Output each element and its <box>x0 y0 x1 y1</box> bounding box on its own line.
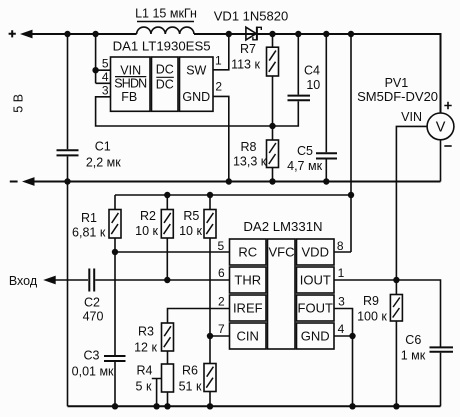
svg-text:SHDN: SHDN <box>114 77 147 91</box>
wire VDD riser rail to pin8 <box>334 34 351 252</box>
svg-text:5 к: 5 к <box>136 380 152 394</box>
svg-text:7: 7 <box>218 322 225 336</box>
svg-text:C1: C1 <box>95 140 111 154</box>
svg-text:IREF: IREF <box>233 301 263 316</box>
svg-text:51 к: 51 к <box>179 380 202 394</box>
label + (plus terminal) <box>9 30 16 37</box>
svg-text:IOUT: IOUT <box>300 273 331 288</box>
wire left riser minus to bottom rail <box>67 182 69 407</box>
wire lower supply rail y195 <box>115 195 351 210</box>
svg-text:4,7 мк: 4,7 мк <box>287 159 322 173</box>
svg-text:DA2 LM331N: DA2 LM331N <box>243 219 322 234</box>
resistor R6 51к <box>179 336 216 406</box>
trimmer R4 5к <box>136 364 174 407</box>
junction R4 tap/bottom rail <box>153 403 159 409</box>
resistor R9 100к <box>357 280 402 406</box>
inductor L1 coil <box>137 22 194 35</box>
wire DA2 pin1 IOUT to C6 <box>334 280 441 347</box>
wire C2 to DA2 pin6 THR <box>95 279 229 281</box>
svg-text:R6: R6 <box>182 364 198 378</box>
svg-text:3: 3 <box>102 83 109 97</box>
wire DA2 pin7 CIN <box>210 335 230 337</box>
svg-text:2: 2 <box>218 295 225 309</box>
junction +rail/VDD riser <box>348 31 354 37</box>
junction R5-R6/pin7 wire <box>207 333 213 339</box>
svg-text:GND: GND <box>182 90 210 104</box>
svg-text:5: 5 <box>102 57 109 71</box>
resistor R2 10к <box>135 209 173 238</box>
svg-text:FOUT: FOUT <box>298 301 333 316</box>
svg-text:Вход: Вход <box>9 274 38 288</box>
svg-text:R7: R7 <box>240 42 256 56</box>
label − (minus terminal) <box>10 181 18 183</box>
wire DA2 pin4 GND <box>334 336 353 406</box>
svg-text:R2: R2 <box>140 209 156 223</box>
svg-text:VDD: VDD <box>302 245 329 260</box>
junction IOUT/R9/VIN <box>393 277 399 283</box>
wire DA2 pin3 FOUT to GND net <box>334 309 353 337</box>
svg-text:C2: C2 <box>84 295 100 309</box>
IC DA1 LT1930ES5 <box>111 38 214 111</box>
svg-text:2: 2 <box>215 80 222 94</box>
wire DA1 pins 5,4 supply <box>96 34 111 83</box>
junction C3/bottom rail <box>112 403 118 409</box>
junction +rail/C4 <box>295 31 301 37</box>
svg-text:C6: C6 <box>405 333 421 347</box>
svg-text:4: 4 <box>102 70 109 84</box>
svg-text:6: 6 <box>218 266 225 280</box>
junction FB/R7/R8/C4 node <box>269 123 275 129</box>
wire R1 bottom / pin5 riser / C3 riser <box>114 238 116 406</box>
junction +rail/SW <box>226 31 232 37</box>
svg-text:R5: R5 <box>183 209 199 223</box>
wire DA2 pin5 RC <box>115 251 230 253</box>
svg-text:VFC: VFC <box>269 245 295 260</box>
svg-text:R1: R1 <box>81 211 97 225</box>
resistor R3 12к <box>134 323 173 354</box>
junction +rail/DA1 supply <box>92 31 98 37</box>
capacitor C3 0,01мк <box>72 348 126 378</box>
svg-text:8: 8 <box>337 239 344 253</box>
input arrow <box>43 276 56 285</box>
resistor R7 113к <box>231 34 278 126</box>
capacitor C6 1мк <box>401 333 453 406</box>
svg-text:1 мк: 1 мк <box>401 348 426 362</box>
svg-text:VIN: VIN <box>120 63 141 77</box>
junction minus/DA1 GND <box>226 178 232 184</box>
wire DA1 GND pin2 to minus rail <box>213 96 229 181</box>
wire minus rail <box>28 181 441 183</box>
svg-text:470: 470 <box>83 310 104 324</box>
svg-text:10 к: 10 к <box>135 224 158 238</box>
svg-text:THR: THR <box>234 273 261 288</box>
svg-text:VIN: VIN <box>401 110 422 124</box>
resistor R1 6,81к <box>72 210 121 240</box>
svg-text:FB: FB <box>121 90 137 104</box>
svg-text:12 к: 12 к <box>134 340 157 354</box>
IC DA2 LM331N <box>230 219 335 349</box>
wire R5 bottom to pin7 <box>209 238 211 336</box>
junction +rail/C1 <box>64 31 70 37</box>
wire +5V rail right part with drop to voltmeter <box>194 34 441 113</box>
svg-text:R4: R4 <box>137 364 153 378</box>
wire R3 to R4 <box>167 351 169 364</box>
svg-text:PV1: PV1 <box>385 76 409 90</box>
wire DA1 SW pin1 to rail <box>213 34 229 70</box>
wire voltmeter minus to rail <box>440 140 442 182</box>
junction minus/C5 <box>323 178 329 184</box>
svg-text:3: 3 <box>338 295 345 309</box>
junction pin4 riser/bottom rail <box>349 403 355 409</box>
svg-text:1: 1 <box>338 266 345 280</box>
junction FOUT/GND <box>349 333 355 339</box>
svg-text:R3: R3 <box>138 324 154 338</box>
svg-text:GND: GND <box>301 329 330 344</box>
svg-text:2,2 мк: 2,2 мк <box>86 156 121 170</box>
svg-text:1: 1 <box>215 54 222 68</box>
power minus/common arrow <box>22 177 35 186</box>
svg-text:6,81 к: 6,81 к <box>72 226 106 240</box>
wire bottom rail <box>68 405 441 407</box>
svg-text:113 к: 113 к <box>231 57 260 71</box>
svg-text:10 к: 10 к <box>179 224 202 238</box>
svg-text:DC: DC <box>156 63 174 77</box>
svg-text:V: V <box>436 119 446 135</box>
svg-text:C4: C4 <box>304 63 320 77</box>
svg-text:5 В: 5 В <box>12 94 26 113</box>
svg-text:5: 5 <box>218 239 225 253</box>
wire voltmeter VIN to IOUT <box>396 126 427 280</box>
junction R6/bottom rail <box>207 403 213 409</box>
junction minus/C1 riser <box>64 178 70 184</box>
svg-text:SW: SW <box>186 63 206 77</box>
svg-text:CIN: CIN <box>237 329 259 344</box>
capacitor C1 <box>57 34 122 182</box>
svg-text:C5: C5 <box>297 144 313 158</box>
resistor R5 10к <box>179 209 216 238</box>
svg-text:C3: C3 <box>84 348 100 362</box>
svg-text:10: 10 <box>306 78 320 92</box>
junction DA1 pin5 <box>92 67 98 73</box>
svg-text:4: 4 <box>338 322 345 336</box>
junction +rail/C5 <box>323 31 329 37</box>
svg-text:SM5DF-DV20: SM5DF-DV20 <box>357 89 438 104</box>
capacitor C4 <box>273 34 321 126</box>
svg-text:13,3 к: 13,3 к <box>233 154 267 168</box>
wire DA1 FB pin3 to R7/R8 node <box>96 97 273 126</box>
capacitor C5 <box>287 34 337 182</box>
resistor R8 13,3к <box>233 126 279 182</box>
svg-text:R8: R8 <box>241 140 257 154</box>
junction +rail/R7 <box>269 31 275 37</box>
junction minus/R8 <box>269 178 275 184</box>
svg-text:0,01 мк: 0,01 мк <box>72 364 114 378</box>
wire +5V rail left part <box>26 33 137 35</box>
svg-text:L1 15 мкГн: L1 15 мкГн <box>135 6 197 20</box>
junction R1/pin5 wire <box>112 249 118 255</box>
junction lower rail/R5 <box>207 192 213 198</box>
junction R9/bottom rail <box>393 403 399 409</box>
svg-text:RC: RC <box>238 245 257 260</box>
wire DA2 pin2 IREF to R3 <box>168 309 230 324</box>
wire input to C2 <box>49 279 88 281</box>
diode VD1 1N5820 <box>246 27 261 41</box>
svg-text:100 к: 100 к <box>357 310 387 324</box>
wire R2 bottom to pin6 <box>166 238 168 280</box>
svg-text:DC: DC <box>156 78 174 92</box>
junction VDD riser / lower rail <box>348 192 354 198</box>
capacitor C2 470 <box>83 269 104 324</box>
junction lower rail/R2 <box>164 192 170 198</box>
power +5V input arrow <box>20 30 33 39</box>
svg-text:R9: R9 <box>363 294 379 308</box>
svg-text:VD1 1N5820: VD1 1N5820 <box>214 9 288 24</box>
svg-text:DA1 LT1930ES5: DA1 LT1930ES5 <box>113 38 211 53</box>
voltmeter PV1 SM5DF-DV20 <box>357 76 454 146</box>
junction R4/bottom rail <box>164 403 170 409</box>
junction R2/pin6 wire <box>164 277 170 283</box>
